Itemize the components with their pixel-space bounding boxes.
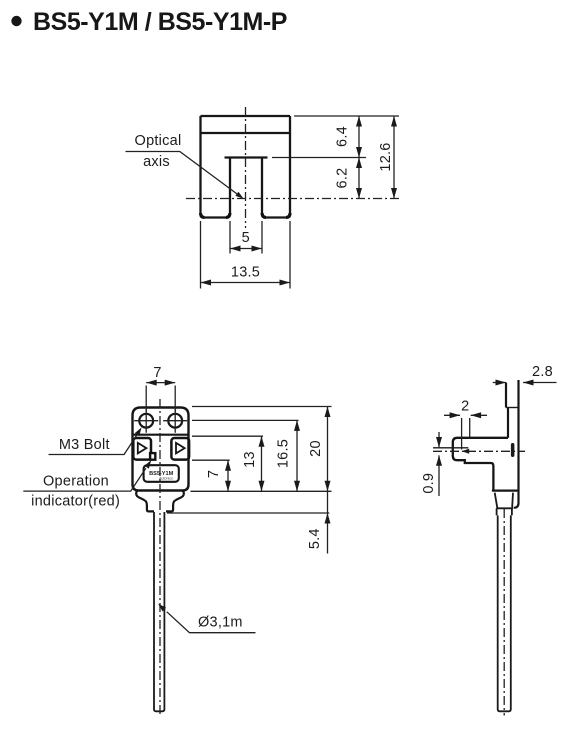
top view: optical axis line [186,198,400,200]
svg-text:6.2: 6.2 [335,168,351,189]
dimension 13.5 [201,282,291,284]
front view: right receiver triangle [176,443,185,454]
dimension 6.2 [358,158,360,199]
front view: left optical window [133,438,151,460]
top view: feet corner blobs [201,213,290,217]
svg-text:13.5: 13.5 [231,265,260,281]
svg-text:0.9: 0.9 [421,473,437,494]
dimension 13 [261,436,263,491]
svg-text:Ø3,1m: Ø3,1m [198,615,243,631]
dimension 2.8 [493,382,557,384]
svg-text:5.4: 5.4 [307,528,323,549]
svg-text:7: 7 [153,365,161,381]
side view: strain relief [495,493,513,516]
front view: center line [159,399,161,716]
front view: cable [154,512,164,711]
side view: axis arrowhead marker [462,449,470,454]
side view: center line [503,509,505,716]
front view: body outline [133,408,189,491]
side view: optical axis line [433,450,525,452]
svg-text:Operation: Operation [43,474,109,490]
dimension 12.6 [393,116,395,199]
dimension 16.5 [296,420,298,491]
front view: model label plate [144,465,179,482]
side view: operation indicator (side, black) [511,443,515,457]
dimension 0.9 [438,432,440,496]
dimension 7 (hole spacing, top) [146,383,175,412]
top view: extension lines right [272,116,399,158]
svg-text:Optical: Optical [135,133,182,149]
svg-text:Autonics: Autonics [159,477,173,481]
dimension 5.4 [327,491,329,553]
title bullet [11,16,21,26]
front view: M3 bolt hole left [139,414,153,428]
front view: operation indicator square [150,453,155,460]
dimension 20 [327,407,329,492]
top view: vertical center line [245,107,247,228]
svg-text:6.4: 6.4 [335,126,351,147]
front view: right optical window [171,438,189,460]
svg-text:12.6: 12.6 [378,142,394,171]
svg-text:20: 20 [308,440,324,457]
front view: line below holes [133,434,189,436]
svg-text:BS5-Y1M / BS5-Y1M-P: BS5-Y1M / BS5-Y1M-P [33,8,287,36]
dimension 5 [230,248,262,250]
front view: M3 bolt hole right [168,414,182,428]
svg-text:indicator(red): indicator(red) [31,494,120,510]
svg-text:2.8: 2.8 [532,364,553,380]
side view: top slab [506,380,519,508]
svg-text:axis: axis [143,154,170,170]
svg-text:5: 5 [242,230,250,246]
dimension 2 [444,414,487,416]
front view: extension lines right [167,407,332,514]
side view: 0.9 feature line [433,447,468,449]
svg-text:2: 2 [461,399,469,415]
svg-text:16.5: 16.5 [275,439,291,468]
top view: sensor body outline [201,116,291,218]
side view: body bottom edge [492,490,520,492]
side view: arm and sensing tip [453,438,508,491]
dimension 7 (front height) [227,460,229,491]
dimension 6.4 [358,116,360,158]
top view: extension lines below [201,221,291,289]
side view: cable [498,515,511,711]
front view: left emitter triangle [138,443,147,454]
svg-text:M3 Bolt: M3 Bolt [59,437,110,453]
front view: cable strain relief neck [136,491,184,512]
svg-text:13: 13 [242,451,258,468]
svg-text:7: 7 [206,470,222,478]
